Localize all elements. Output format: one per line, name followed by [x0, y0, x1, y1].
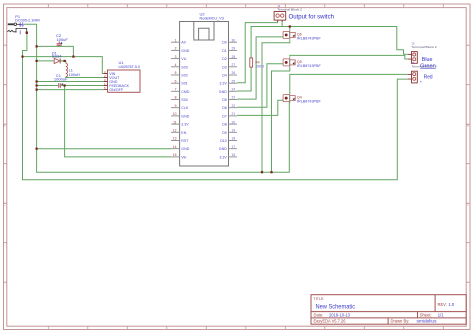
svg-text:11: 11 [173, 120, 177, 124]
svg-text:D6: D6 [222, 106, 227, 110]
svg-text:GND: GND [181, 114, 189, 118]
svg-text:3.3V: 3.3V [181, 123, 189, 127]
svg-text:CMD: CMD [181, 90, 190, 94]
svg-text:100uH: 100uH [69, 73, 80, 77]
svg-text:3.3V: 3.3V [219, 155, 227, 159]
svg-text:12: 12 [173, 129, 177, 133]
svg-text:100uF: 100uF [57, 37, 69, 42]
svg-text:6: 6 [175, 79, 177, 83]
svg-text:16: 16 [232, 153, 236, 157]
svg-text:Red: Red [424, 75, 433, 81]
svg-text:A0: A0 [181, 41, 185, 45]
svg-text:IRLB8743PBF: IRLB8743PBF [297, 64, 321, 68]
svg-text:D7: D7 [222, 114, 227, 118]
svg-text:D3: D3 [222, 65, 227, 69]
svg-text:17: 17 [232, 145, 236, 149]
svg-text:New Schematic: New Schematic [316, 304, 356, 311]
svg-text:D5: D5 [222, 98, 227, 102]
svg-text:LM2576T-5.0: LM2576T-5.0 [119, 64, 141, 69]
svg-text:29: 29 [232, 47, 236, 51]
svg-text:D8: D8 [222, 123, 227, 127]
svg-text:RST: RST [181, 139, 189, 143]
svg-text:D9: D9 [222, 131, 227, 135]
svg-text:S03: S03 [181, 65, 187, 69]
svg-text:Output for switch: Output for switch [289, 14, 335, 20]
svg-text:Vin: Vin [181, 155, 186, 159]
svg-text:13: 13 [173, 137, 177, 141]
svg-text:1/1: 1/1 [438, 312, 444, 317]
svg-text:27: 27 [232, 63, 236, 67]
svg-text:24: 24 [232, 88, 236, 92]
svg-text:EN: EN [181, 131, 186, 135]
svg-text:D0: D0 [222, 41, 227, 45]
svg-text:S02: S02 [181, 74, 187, 78]
svg-text:5: 5 [175, 71, 177, 75]
svg-text:Blue: Blue [422, 57, 433, 63]
svg-text:SS34: SS34 [52, 53, 63, 58]
svg-text:IRLB8743PBF: IRLB8743PBF [297, 100, 321, 104]
svg-text:23: 23 [232, 96, 236, 100]
svg-text:2018-10-13: 2018-10-13 [329, 312, 351, 317]
svg-text:EasyEDA V5.7.26: EasyEDA V5.7.26 [314, 319, 347, 324]
svg-text:Sheet:: Sheet: [420, 312, 432, 317]
svg-text:28: 28 [232, 55, 236, 59]
svg-text:26: 26 [232, 71, 236, 75]
svg-text:7: 7 [175, 88, 177, 92]
svg-text:TITLE:: TITLE: [314, 297, 325, 301]
svg-text:IRLB8743PBF: IRLB8743PBF [297, 36, 321, 40]
svg-text:REV:: REV: [438, 302, 447, 307]
svg-text:GND: GND [219, 147, 227, 151]
svg-text:D10: D10 [220, 139, 227, 143]
svg-text:8: 8 [175, 96, 177, 100]
svg-text:B: B [3, 124, 5, 128]
svg-text:D4: D4 [222, 74, 227, 78]
svg-text:25: 25 [232, 79, 236, 83]
svg-text:4: 4 [175, 63, 177, 67]
svg-text:Drawn By:: Drawn By: [391, 319, 410, 324]
svg-text:D1: D1 [222, 49, 227, 53]
svg-text:GND: GND [181, 147, 189, 151]
svg-text:3.3V: 3.3V [219, 82, 227, 86]
svg-text:D2: D2 [222, 57, 227, 61]
svg-text:21: 21 [232, 112, 236, 116]
svg-text:GND: GND [181, 49, 189, 53]
svg-text:15: 15 [173, 153, 177, 157]
svg-text:10KΩ: 10KΩ [255, 64, 264, 68]
svg-text:19: 19 [232, 129, 236, 133]
svg-text:DC005-2.1MM: DC005-2.1MM [15, 19, 40, 23]
svg-text:B: B [467, 124, 469, 128]
svg-text:VU: VU [181, 57, 186, 61]
svg-text:20: 20 [232, 120, 236, 124]
svg-text:1000uF: 1000uF [54, 77, 68, 82]
svg-text:S00: S00 [181, 98, 187, 102]
svg-text:CLK: CLK [181, 106, 189, 110]
svg-text:Terminal Block 2: Terminal Block 2 [412, 65, 438, 69]
svg-text:Terminal Block 2: Terminal Block 2 [277, 8, 302, 12]
svg-text:18: 18 [232, 137, 236, 141]
svg-text:ON/OFF: ON/OFF [109, 88, 124, 92]
svg-text:+: + [420, 79, 423, 84]
svg-text:smidelius: smidelius [417, 319, 437, 324]
svg-text:10: 10 [173, 112, 177, 116]
svg-text:30: 30 [232, 38, 236, 42]
svg-text:Date:: Date: [314, 312, 324, 317]
svg-text:GND: GND [219, 90, 227, 94]
svg-text:22: 22 [232, 104, 236, 108]
svg-text:Terminal Block 2: Terminal Block 2 [412, 45, 438, 49]
svg-text:1: 1 [175, 38, 177, 42]
svg-text:14: 14 [173, 145, 177, 149]
svg-text:3: 3 [175, 55, 177, 59]
svg-text:NodeMCU_V3: NodeMCU_V3 [200, 15, 225, 20]
svg-text:9: 9 [175, 104, 177, 108]
svg-text:2: 2 [175, 47, 177, 51]
svg-text:1.0: 1.0 [449, 302, 455, 307]
svg-text:S01: S01 [181, 82, 187, 86]
